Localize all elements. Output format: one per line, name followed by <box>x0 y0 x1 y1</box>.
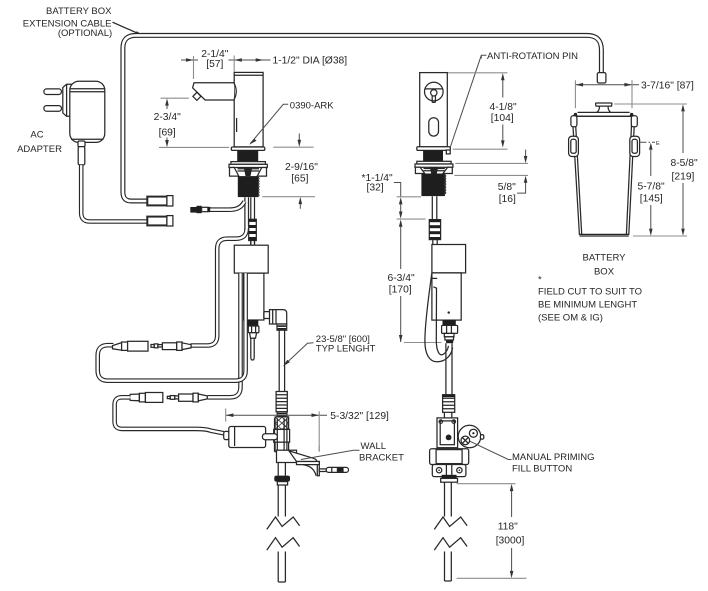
faucet U1 wing nut <box>230 168 267 177</box>
svg-text:MANUAL PRIMING: MANUAL PRIMING <box>512 452 595 463</box>
ribbed coupling on supply tube 1 <box>276 392 287 412</box>
solenoid 1 outlet nut <box>248 326 259 333</box>
svg-text:AC: AC <box>30 129 43 140</box>
svg-text:[219]: [219] <box>672 172 695 183</box>
svg-text:4-1/8": 4-1/8" <box>490 102 517 113</box>
label ANTI-ROTATION PIN with leader <box>450 51 578 148</box>
battery box lower latches <box>569 136 640 156</box>
manual priming fill button (round knob) <box>458 425 484 448</box>
cables below control box 1 <box>98 273 246 397</box>
supply tube 2 (long vertical) <box>446 343 452 395</box>
connector B: AC adapter plug (lower) <box>147 216 173 226</box>
solenoid 1 outlet reducer and hanging tube <box>250 333 257 360</box>
svg-text:BOX: BOX <box>594 266 615 277</box>
escutcheon (right assembly) <box>441 475 458 482</box>
dim 5-3/32" [129] <box>226 409 389 452</box>
svg-text:[16]: [16] <box>499 194 516 205</box>
svg-text:FILL BUTTON: FILL BUTTON <box>512 464 572 475</box>
svg-text:TYP LENGHT: TYP LENGHT <box>316 344 376 355</box>
connector F2 (female, lower cable pair) <box>130 393 163 403</box>
label BATTERY BOX <box>583 253 627 278</box>
svg-text:[145]: [145] <box>640 194 663 205</box>
dim 118" [3000] <box>457 484 527 579</box>
sensor cable hanging loop at solenoid 2 <box>425 274 453 362</box>
svg-text:ANTI-ROTATION PIN: ANTI-ROTATION PIN <box>487 51 578 62</box>
battery box upper clips <box>571 116 637 127</box>
svg-text:[69]: [69] <box>159 128 176 139</box>
leader from label to cable <box>113 22 138 33</box>
faucet U1 aerator tip <box>193 92 201 100</box>
svg-text:0390-ARK: 0390-ARK <box>290 100 334 111</box>
centerline mark E <box>640 141 661 147</box>
bracket clamp plates <box>275 418 287 451</box>
wall bracket W1 <box>277 450 320 476</box>
anti-rotation pin <box>446 150 450 154</box>
faucet U1 base flange <box>231 147 264 150</box>
manifold side pin <box>262 434 277 440</box>
tube below wall bracket <box>278 463 285 476</box>
outlet tube below left assembly <box>278 485 285 517</box>
faucet U2 upper shank (black) <box>423 150 443 161</box>
faucet U2 wing nut <box>415 167 452 173</box>
AC adapter label text <box>17 129 62 155</box>
cable from F2 to pump motor <box>115 397 224 433</box>
faucet U1 upper shank (black) <box>237 150 258 161</box>
svg-text:[57]: [57] <box>206 59 223 70</box>
svg-text:E: E <box>656 141 660 147</box>
svg-text:[65]: [65] <box>291 174 308 185</box>
sensor cable from faucet down to plug P1 <box>191 228 247 346</box>
dim 1-1/2" DIA [Ø38] <box>234 56 347 67</box>
dim 6-3/4" [170] <box>388 220 442 343</box>
battery box lid knob (T-handle) <box>596 103 612 112</box>
svg-text:[3000]: [3000] <box>496 536 525 547</box>
faucet U2 threaded shank (black) <box>421 174 446 197</box>
svg-text:(SEE OM & IG): (SEE OM & IG) <box>538 313 603 324</box>
solenoid 1 outlet dark band <box>247 320 258 326</box>
AC adapter cable <box>81 165 149 221</box>
dim 3-7/16" [87] <box>575 80 694 108</box>
connector A: extension cable plug (upper, near AC adapter) <box>147 196 173 206</box>
connector P2 (male plug, lower cable pair) <box>167 393 207 402</box>
svg-text:(OPTIONAL): (OPTIONAL) <box>58 28 112 39</box>
mounting bracket lower tier <box>432 465 466 477</box>
elbow 1 lower connector bands <box>277 324 287 330</box>
manifold lower block <box>275 442 289 452</box>
dim 2-1/4 lines and arrows <box>181 56 271 80</box>
faucet U1 threaded shank (black) <box>238 176 259 197</box>
dim 2-9/16" [65] <box>262 134 318 209</box>
label 0390-ARK with leader <box>249 100 334 145</box>
battery box body <box>572 116 634 236</box>
svg-text:ADAPTER: ADAPTER <box>17 144 62 155</box>
dim 8-5/8" [219] <box>614 104 698 236</box>
faucet U1 supply tubes below shank <box>245 197 255 245</box>
note: field cut <box>538 275 642 324</box>
svg-text:5-7/8": 5-7/8" <box>638 182 665 193</box>
faucet U1 mounting ring <box>229 162 267 168</box>
faucet U2 supply tube below shank <box>432 196 437 219</box>
faucet U2 base flange <box>417 147 451 151</box>
faucet U2 slot <box>429 118 439 136</box>
connector at right end of extension cable (near battery box) <box>597 73 606 83</box>
pump motor body <box>229 426 266 447</box>
faucet U2 sensor screw <box>425 82 444 102</box>
ribbed coupling on faucet U1 supply tube <box>249 219 257 240</box>
faucet U2 body (rear view) <box>420 73 448 147</box>
AC adapter plug prongs <box>44 89 62 111</box>
solenoid valve 1 body <box>244 273 264 320</box>
svg-text:8-5/8": 8-5/8" <box>671 158 698 169</box>
svg-text:[104]: [104] <box>491 113 514 124</box>
control box 1 <box>234 245 268 273</box>
svg-text:2-9/16": 2-9/16" <box>285 162 318 173</box>
svg-text:WALL: WALL <box>361 441 387 452</box>
pump motor shaft <box>224 431 229 439</box>
label: battery box extension cable (optional) <box>23 6 112 39</box>
faucet U1 body (0390-ARK) <box>234 72 263 146</box>
solenoid 2 outlet dark band <box>443 320 456 325</box>
supply tube 1 (long vertical) <box>279 330 284 391</box>
solenoid valve 2 body <box>432 273 461 320</box>
elbow fitting at solenoid 1 <box>264 310 287 324</box>
dim 4-1/8" [104] <box>448 73 517 149</box>
AC adapter body <box>70 81 105 142</box>
dim 5-7/8" [145] <box>638 143 665 236</box>
control box 1 inlet stub <box>251 241 255 246</box>
dim *1-1/4" [32] <box>362 173 426 219</box>
AC adapter plug face plate <box>63 84 73 116</box>
mounting bracket (right assembly) upper tier <box>430 449 469 465</box>
control box 2 inlet stub <box>433 240 437 245</box>
tube break symbol (left, upper) <box>267 517 300 550</box>
solenoid 2 outlet nut <box>442 325 458 333</box>
svg-text:BATTERY BOX: BATTERY BOX <box>46 6 112 17</box>
right tube lower section <box>445 552 452 582</box>
plug C: faucet power connector <box>190 206 210 213</box>
manual priming valve body <box>437 418 458 448</box>
label MANUAL PRIMING FILL BUTTON with leader <box>470 441 595 474</box>
svg-text:6-3/4": 6-3/4" <box>388 273 415 284</box>
faucet U1 spout <box>193 83 237 100</box>
svg-text:5-3/32" [129]: 5-3/32" [129] <box>330 411 389 422</box>
svg-text:BRACKET: BRACKET <box>359 453 404 464</box>
connector P1 (male plug, upper cable pair) <box>151 342 191 350</box>
svg-text:[32]: [32] <box>367 183 384 194</box>
dim 2-3/4" [69] <box>154 98 229 147</box>
svg-text:5/8": 5/8" <box>498 182 516 193</box>
plug C cable to faucet <box>210 202 244 210</box>
connector F1 (female, upper cable pair) <box>113 341 149 351</box>
left tube lower section <box>278 552 285 583</box>
svg-text:BE MINIMUM LENGHT: BE MINIMUM LENGHT <box>538 299 637 310</box>
coupling lower dark bands <box>277 412 287 418</box>
valve inlet stub <box>444 412 451 418</box>
control box 2 <box>432 245 466 273</box>
label 23-5/8" [600] TYP LENGHT with leader <box>283 334 376 366</box>
AC adapter cord strain relief <box>78 141 85 147</box>
label WALL BRACKET with leader <box>301 441 404 464</box>
svg-text:[170]: [170] <box>389 284 412 295</box>
escutcheon flange (left assembly) <box>274 476 290 485</box>
svg-text:118": 118" <box>498 522 518 533</box>
outlet tube below right assembly <box>445 482 452 516</box>
svg-text:BATTERY: BATTERY <box>583 253 627 264</box>
manifold knurled block <box>275 417 289 430</box>
faucet U2 mounting ring <box>415 161 453 167</box>
dim 5/8" [16] <box>454 150 528 206</box>
svg-text:1-1/2" DIA [Ø38]: 1-1/2" DIA [Ø38] <box>273 56 348 67</box>
solenoid 2 outlet rings <box>444 333 454 343</box>
battery box lid <box>572 112 634 116</box>
tube break symbol (right, upper) <box>434 517 467 550</box>
ribbed coupling on supply tube 2 <box>443 395 455 413</box>
ext line overlay (5-3/32 right extension over bracket) <box>318 446 320 452</box>
battery box extension cable (long run across top) <box>123 35 602 201</box>
ribbed coupling on faucet U2 tube <box>429 220 440 240</box>
svg-text:3-7/16" [87]: 3-7/16" [87] <box>641 80 694 91</box>
manifold center block <box>274 429 290 442</box>
wall bracket mounting rod <box>319 467 348 472</box>
svg-text:FIELD CUT TO SUIT TO: FIELD CUT TO SUIT TO <box>538 286 642 297</box>
svg-text:*: * <box>538 275 542 286</box>
svg-text:2-3/4": 2-3/4" <box>154 112 181 123</box>
